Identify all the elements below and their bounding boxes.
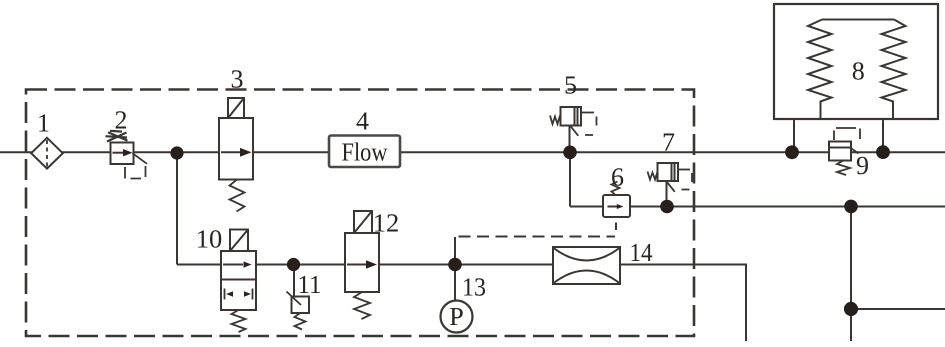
- flow meter 4: [329, 136, 400, 168]
- svg-text:Flow: Flow: [342, 137, 388, 166]
- valve 10: [221, 230, 256, 333]
- regulator 2: [106, 131, 148, 179]
- svg-text:10: 10: [196, 225, 223, 254]
- wire right vertical from lower line node x=851 down: [850, 207, 852, 342]
- svg-text:14: 14: [630, 238, 653, 267]
- wire drop from valve 5 to main line: [569, 126, 571, 153]
- valve 7: [648, 163, 693, 192]
- wire main line (supply line y=152): [0, 151, 945, 153]
- svg-text:P: P: [449, 302, 463, 331]
- wire vertical from node at x=570 down to lower line: [569, 152, 571, 206]
- pressure gauge 13: [441, 301, 473, 333]
- dashed enclosure border: [26, 90, 694, 337]
- wire pin from bladder 8 right to main line: [882, 119, 884, 152]
- svg-text:6: 6: [611, 163, 624, 192]
- node before valve 11: [287, 258, 300, 271]
- wire bottom line from x=177 to right corner, down to bottom: [177, 265, 746, 342]
- wire drop from node x=294 to relief valve 11: [293, 265, 295, 297]
- node right pin of 8: [876, 145, 890, 159]
- svg-text:8: 8: [852, 57, 865, 86]
- wire gauge branch down from node x=455: [454, 265, 456, 302]
- wire lower line (y=206.5): [570, 206, 945, 208]
- wire bottom right horizontal from node (851,309): [851, 308, 945, 310]
- valve 12: [345, 211, 379, 319]
- svg-text:2: 2: [115, 105, 128, 134]
- node below valve 5: [563, 146, 577, 160]
- svg-text:13: 13: [462, 273, 486, 302]
- valve 6: [603, 182, 630, 218]
- wire pilot branch up from node x=455 (solid part): [454, 237, 456, 265]
- valve 5: [550, 107, 597, 136]
- regulator 9: [829, 128, 860, 175]
- node on right vertical: [844, 200, 858, 214]
- wire pin from bladder 8 left to main line: [793, 119, 795, 152]
- svg-text:5: 5: [564, 71, 577, 100]
- valve 3: [219, 98, 253, 212]
- svg-text:12: 12: [373, 209, 400, 238]
- svg-text:1: 1: [37, 109, 50, 138]
- wire dashed pilot line from node 13 up to valve 6: [459, 236, 616, 238]
- node bottom right: [844, 302, 858, 316]
- node left pin of 8: [785, 145, 799, 159]
- svg-text:3: 3: [231, 65, 244, 94]
- wire drop from valve 7 to lower line: [666, 181, 668, 207]
- bladder 8: [774, 4, 938, 119]
- svg-text:4: 4: [356, 107, 369, 136]
- node after regulator 2: [170, 146, 183, 159]
- svg-text:11: 11: [298, 270, 322, 299]
- filter 1: [31, 138, 63, 169]
- relief valve 11: [287, 292, 310, 330]
- node below valve 7: [660, 200, 674, 214]
- node at gauge 13: [448, 258, 462, 272]
- wire left branch drop from node x=177 to bottom line: [176, 152, 178, 264]
- svg-text:7: 7: [662, 128, 675, 157]
- svg-text:9: 9: [856, 151, 869, 180]
- venturi 14: [553, 247, 620, 284]
